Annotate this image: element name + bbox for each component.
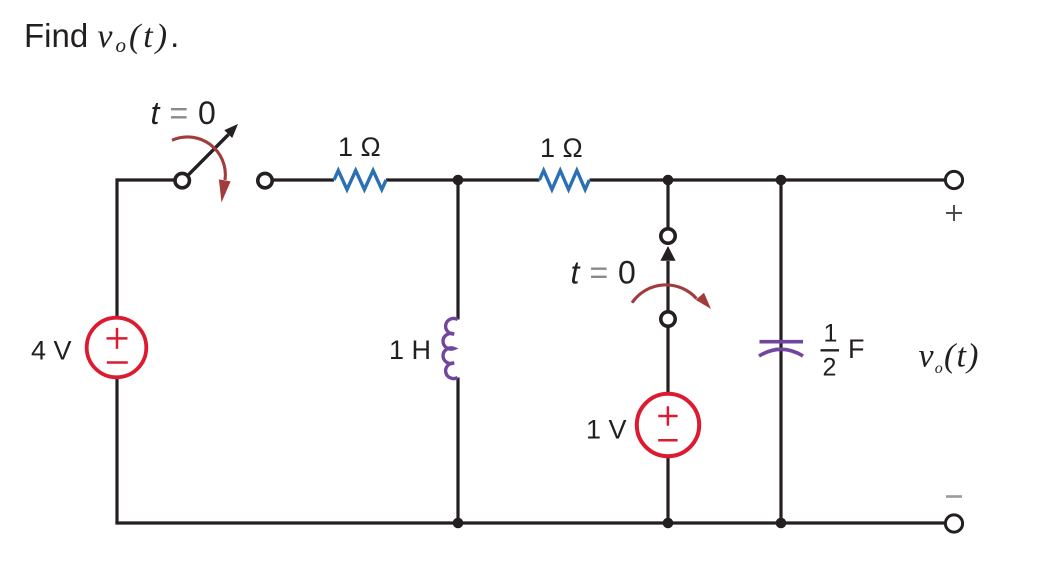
svg-text:t=0: t=0 <box>571 255 636 291</box>
svg-text:1 Ω: 1 Ω <box>540 133 583 163</box>
svg-text:F: F <box>848 334 865 364</box>
svg-text:1 H: 1 H <box>389 335 431 365</box>
svg-text:1: 1 <box>824 320 838 348</box>
svg-text:t=0: t=0 <box>151 95 216 131</box>
svg-text:4 V: 4 V <box>31 336 72 366</box>
svg-text:1 Ω: 1 Ω <box>338 132 381 162</box>
svg-text:1 V: 1 V <box>586 415 627 445</box>
svg-text:vo(t): vo(t) <box>919 338 980 378</box>
svg-text:2: 2 <box>823 354 837 382</box>
